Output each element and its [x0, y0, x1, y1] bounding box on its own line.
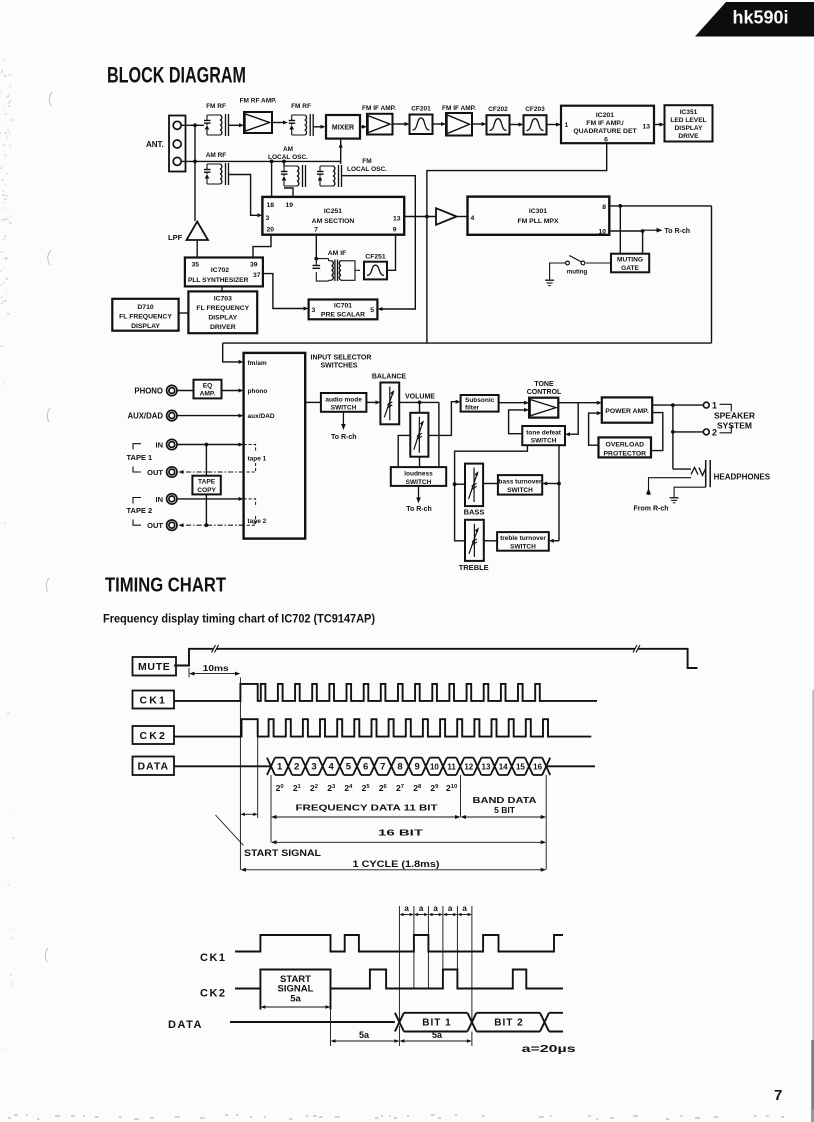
svg-text:5 BIT: 5 BIT: [494, 805, 516, 815]
svg-text:OUT: OUT: [147, 521, 163, 530]
svg-text:CF201: CF201: [411, 106, 431, 113]
svg-text:TAPE 2: TAPE 2: [127, 506, 153, 515]
svg-text:ANT.: ANT.: [146, 140, 164, 149]
svg-text:QUADRATURE DET: QUADRATURE DET: [573, 128, 637, 135]
svg-text:CK2: CK2: [139, 730, 167, 742]
svg-text:To R-ch: To R-ch: [406, 506, 432, 513]
svg-text:SWITCH: SWITCH: [406, 479, 432, 486]
svg-text:2: 2: [294, 762, 299, 773]
svg-text:7: 7: [380, 762, 385, 773]
svg-text:TONE: TONE: [534, 381, 554, 388]
svg-text:DRIVER: DRIVER: [210, 324, 236, 331]
svg-text:PLL SYNTHESIZER: PLL SYNTHESIZER: [188, 277, 249, 284]
svg-text:INPUT SELECTOR: INPUT SELECTOR: [311, 355, 372, 362]
svg-text:EQ: EQ: [203, 383, 213, 390]
svg-text:BLOCK DIAGRAM: BLOCK DIAGRAM: [107, 63, 246, 88]
svg-text:a: a: [404, 904, 409, 913]
svg-text:bass turnover: bass turnover: [499, 478, 542, 485]
svg-text:13: 13: [642, 124, 650, 131]
svg-text:6: 6: [363, 762, 368, 773]
svg-text:a: a: [433, 904, 438, 913]
svg-text:DISPLAY: DISPLAY: [675, 125, 704, 132]
svg-text:DRIVE: DRIVE: [678, 133, 699, 140]
svg-text:FM IF AMP.: FM IF AMP.: [442, 105, 476, 112]
svg-text:BASS: BASS: [464, 508, 485, 517]
svg-text:treble turnover: treble turnover: [500, 535, 546, 542]
svg-text:PROTECTOR: PROTECTOR: [604, 450, 647, 457]
svg-text:FM RF: FM RF: [291, 103, 311, 110]
svg-text:11: 11: [447, 763, 456, 772]
svg-text:To R-ch: To R-ch: [665, 228, 691, 235]
svg-text:CK1: CK1: [200, 952, 227, 964]
svg-text:phono: phono: [248, 388, 268, 395]
svg-text:audio mode: audio mode: [325, 396, 362, 403]
svg-text:PRE SCALAR: PRE SCALAR: [321, 312, 365, 319]
svg-text:LED LEVEL: LED LEVEL: [670, 117, 706, 124]
svg-text:8: 8: [397, 762, 402, 773]
svg-text:13: 13: [482, 763, 491, 772]
svg-text:18: 18: [267, 202, 275, 209]
svg-text:7: 7: [774, 1087, 782, 1104]
svg-text:IN: IN: [156, 495, 164, 504]
svg-text:3: 3: [311, 762, 316, 773]
svg-text:loudness: loudness: [404, 470, 433, 477]
svg-text:a: a: [462, 904, 467, 913]
svg-text:37: 37: [253, 272, 261, 279]
svg-text:COPY: COPY: [197, 487, 216, 494]
svg-text:5a: 5a: [432, 1030, 443, 1040]
svg-text:OUT: OUT: [147, 468, 163, 477]
svg-text:TAPE: TAPE: [198, 479, 216, 486]
svg-text:tape 2: tape 2: [248, 518, 267, 525]
svg-text:SWITCH: SWITCH: [531, 438, 557, 445]
svg-text:PHONO: PHONO: [134, 387, 163, 396]
svg-text:CF251: CF251: [365, 254, 386, 261]
svg-text:MIXER: MIXER: [332, 125, 354, 132]
svg-text:SWITCH: SWITCH: [507, 487, 533, 494]
svg-text:12: 12: [464, 763, 473, 772]
svg-text:FM RF: FM RF: [206, 103, 226, 110]
svg-text:1 CYCLE (1.8ms): 1 CYCLE (1.8ms): [353, 859, 440, 869]
svg-text:3: 3: [266, 215, 270, 222]
svg-text:5a: 5a: [290, 994, 301, 1005]
svg-text:tone defeat: tone defeat: [526, 429, 562, 436]
svg-text:BIT 1: BIT 1: [422, 1018, 451, 1029]
svg-text:BIT 2: BIT 2: [494, 1018, 523, 1029]
svg-text:IN: IN: [156, 441, 164, 450]
svg-text:filter: filter: [465, 404, 480, 411]
svg-text:SYSTEM: SYSTEM: [717, 420, 752, 430]
svg-text:10: 10: [598, 229, 606, 236]
svg-text:TAPE 1: TAPE 1: [127, 453, 153, 462]
svg-text:FM IF AMP.: FM IF AMP.: [362, 105, 396, 112]
svg-text:BAND DATA: BAND DATA: [473, 795, 537, 805]
svg-text:AMP.: AMP.: [200, 391, 216, 398]
svg-text:10: 10: [430, 763, 439, 772]
svg-text:FL FREQUENCY: FL FREQUENCY: [119, 314, 172, 321]
svg-text:POWER AMP.: POWER AMP.: [605, 408, 649, 415]
svg-text:FM RF AMP.: FM RF AMP.: [240, 98, 277, 105]
svg-text:CF202: CF202: [488, 106, 508, 113]
svg-text:DISPLAY: DISPLAY: [131, 323, 160, 330]
svg-text:8: 8: [602, 204, 606, 211]
svg-text:IC701: IC701: [334, 303, 352, 310]
svg-text:FREQUENCY DATA 11 BIT: FREQUENCY DATA 11 BIT: [296, 803, 439, 813]
svg-text:FM PLL MPX: FM PLL MPX: [517, 218, 559, 225]
svg-text:3: 3: [312, 307, 316, 314]
svg-text:LOCAL OSC.: LOCAL OSC.: [268, 154, 308, 161]
svg-text:fm/am: fm/am: [248, 360, 267, 367]
svg-text:GATE: GATE: [621, 265, 639, 272]
svg-text:a=20µs: a=20µs: [522, 1043, 576, 1055]
svg-text:SWITCH: SWITCH: [510, 544, 536, 551]
svg-text:SPEAKER: SPEAKER: [714, 411, 755, 421]
svg-text:IC351: IC351: [680, 109, 698, 116]
svg-text:VOLUME: VOLUME: [405, 393, 435, 400]
svg-text:AUX/DAD: AUX/DAD: [127, 412, 163, 421]
svg-text:4: 4: [329, 762, 335, 773]
svg-text:19: 19: [286, 202, 294, 209]
svg-text:LOCAL OSC.: LOCAL OSC.: [347, 166, 387, 173]
svg-text:5a: 5a: [359, 1030, 370, 1040]
svg-text:hk590i: hk590i: [733, 8, 789, 28]
svg-text:FM IF AMP./: FM IF AMP./: [586, 120, 623, 127]
svg-text:10ms: 10ms: [203, 663, 229, 673]
svg-text:LPF: LPF: [168, 233, 183, 242]
svg-text:14: 14: [499, 763, 508, 772]
svg-text:DATA: DATA: [137, 761, 169, 773]
svg-text:39: 39: [250, 262, 258, 269]
svg-text:TIMING CHART: TIMING CHART: [105, 574, 226, 597]
svg-text:AM RF: AM RF: [206, 152, 227, 159]
svg-text:AM: AM: [283, 146, 293, 153]
svg-text:FL FREQUENCY: FL FREQUENCY: [196, 305, 249, 312]
svg-text:muting: muting: [567, 269, 588, 276]
svg-text:DATA: DATA: [168, 1019, 203, 1031]
svg-text:15: 15: [516, 763, 525, 772]
svg-text:IC301: IC301: [529, 208, 547, 215]
svg-text:IC201: IC201: [596, 112, 614, 119]
svg-text:tape 1: tape 1: [248, 455, 267, 462]
svg-text:aux/DAD: aux/DAD: [248, 413, 275, 420]
svg-text:16 BIT: 16 BIT: [378, 828, 424, 838]
svg-text:D710: D710: [137, 304, 153, 311]
svg-text:16: 16: [533, 763, 542, 772]
svg-text:Subsonic: Subsonic: [465, 397, 495, 404]
svg-text:DISPLAY: DISPLAY: [208, 315, 237, 322]
svg-text:5: 5: [370, 307, 374, 314]
svg-text:To R-ch: To R-ch: [331, 434, 357, 441]
svg-text:IC703: IC703: [214, 296, 232, 303]
svg-text:AM SECTION: AM SECTION: [312, 218, 355, 225]
svg-text:START SIGNAL: START SIGNAL: [244, 848, 322, 858]
svg-text:6: 6: [604, 137, 608, 144]
svg-text:CK1: CK1: [139, 694, 167, 706]
svg-text:CK2: CK2: [200, 988, 227, 1000]
svg-text:AM IF: AM IF: [328, 250, 347, 257]
svg-text:a: a: [419, 904, 424, 913]
svg-text:1: 1: [565, 122, 569, 129]
svg-text:4: 4: [471, 215, 475, 222]
svg-text:From R-ch: From R-ch: [634, 506, 669, 513]
svg-text:1: 1: [712, 401, 717, 411]
svg-text:SWITCH: SWITCH: [331, 405, 357, 412]
svg-text:TREBLE: TREBLE: [459, 563, 489, 572]
svg-text:35: 35: [192, 262, 200, 269]
svg-text:MUTING: MUTING: [617, 257, 643, 264]
svg-text:9: 9: [393, 227, 397, 234]
svg-text:IC251: IC251: [324, 208, 342, 215]
svg-text:CF203: CF203: [525, 106, 545, 113]
svg-text:a: a: [448, 904, 453, 913]
svg-text:1: 1: [277, 762, 283, 773]
svg-text:7: 7: [314, 227, 318, 234]
svg-text:OVERLOAD: OVERLOAD: [606, 441, 645, 448]
svg-text:MUTE: MUTE: [138, 661, 171, 673]
svg-text:9: 9: [415, 762, 420, 773]
svg-text:13: 13: [393, 216, 401, 223]
svg-text:FM: FM: [362, 158, 371, 165]
svg-text:Frequency display timing chart: Frequency display timing chart of IC702 …: [103, 612, 375, 626]
svg-text:CONTROL: CONTROL: [527, 389, 562, 396]
svg-text:BALANCE: BALANCE: [372, 374, 407, 381]
svg-text:SWITCHES: SWITCHES: [321, 363, 358, 370]
svg-text:5: 5: [346, 762, 352, 773]
svg-text:IC702: IC702: [211, 267, 229, 274]
svg-text:HEADPHONES: HEADPHONES: [714, 473, 771, 482]
svg-text:20: 20: [267, 227, 275, 234]
